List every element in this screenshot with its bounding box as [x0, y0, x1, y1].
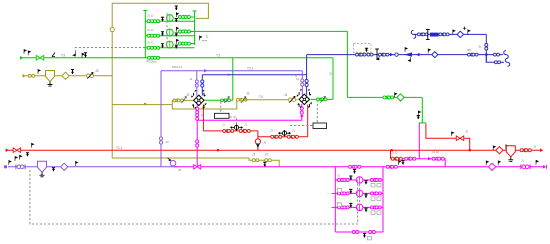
gauge vertical purple riser: [159, 137, 162, 144]
black sensors red branch valve: [452, 132, 454, 136]
gauges red row2 left: [271, 135, 278, 138]
black flow glyph on green line: [82, 53, 84, 57]
gauges blue main 3: [378, 53, 384, 56]
svg-text:11: 11: [190, 77, 193, 81]
gauges blue main mid: [355, 53, 361, 56]
arrow olive line start: [23, 74, 26, 78]
wire olive vertical into node1 arm: [171, 100, 173, 109]
wire purple T2.1 line: [161, 70, 302, 72]
wire red drop to jack row: [390, 150, 392, 159]
wire blue main line: [307, 54, 486, 56]
black actuator above gauge J1: [38, 70, 40, 74]
dashed long control bottom: [30, 170, 358, 224]
gauge vertical purple node1: [195, 80, 198, 87]
gauges red bus right: [520, 149, 527, 152]
green box right rail: [194, 11, 196, 45]
arrow magenta jack row: [428, 157, 431, 161]
tiny label box bottom: [368, 237, 372, 240]
gauges magenta bus near box: [349, 165, 356, 168]
wire magenta bus: [174, 166, 543, 168]
gauge green branch: [383, 96, 389, 99]
svg-text:11: 11: [295, 74, 298, 78]
wire olive T4 between nodes: [245, 99, 298, 101]
relief valve red stub: [255, 139, 260, 144]
black arrow right of blue diamond: [468, 30, 470, 34]
variable orifice J4 node2 olive: [288, 98, 295, 102]
slash arrow orifice green link: [225, 97, 230, 104]
valve bowtie green T3: [36, 56, 44, 61]
dashed from servo node2 left: [290, 125, 313, 127]
pump M2 magenta: [356, 190, 363, 197]
gauges magenta box bottom: [352, 231, 359, 234]
magenta pump row 2 wire: [335, 192, 383, 194]
tank blue tail upper: [504, 51, 509, 59]
arrow red bus end: [540, 148, 543, 152]
wire red jack row segment: [391, 158, 404, 160]
black arrows around magenta diamond: [486, 161, 488, 165]
tank blue tail lower: [505, 58, 510, 66]
coupler purple bus: [16, 164, 25, 169]
svg-text:J1: J1: [222, 123, 225, 127]
gauges magenta jack row: [432, 157, 439, 160]
check valves row 1 green: [189, 16, 195, 18]
servo valve filled blue: [404, 52, 412, 56]
gauge vertical blue right drop: [485, 44, 488, 51]
check valves row 3 green: [189, 43, 195, 45]
wire blue vertical node2: [306, 55, 308, 96]
check valve diamond olive: [62, 72, 69, 79]
black actuator bus right of box: [399, 161, 401, 165]
gauge pair row 1 green: [147, 20, 153, 23]
check diamond purple bus: [61, 163, 68, 170]
black actuator below red gauges: [401, 161, 404, 165]
slash arrow orifice J3: [241, 97, 246, 104]
gauge on green link node2: [317, 98, 323, 101]
wire red bus T1.1: [6, 149, 540, 151]
svg-text:IPS2bis: IPS2bis: [146, 60, 157, 64]
black arrow left of red diamond: [493, 146, 495, 150]
dashed control node1 servo: [220, 102, 222, 114]
wire green riser node1: [232, 58, 234, 101]
accumulator A1 olive: [46, 71, 55, 82]
black tall actuator blue main: [375, 49, 379, 61]
wire magenta node2 drop: [301, 104, 303, 120]
arrowhead blue line: [416, 53, 419, 57]
gauges red jack row: [391, 157, 398, 160]
svg-text:T2.1: T2.1: [247, 66, 254, 70]
svg-text:1L: 1L: [201, 113, 205, 117]
gauges blue tail upper: [493, 53, 499, 56]
wire green line1 upper: [195, 30, 348, 32]
gauges right magenta row 2: [370, 192, 376, 195]
check diamond blue upper: [457, 31, 463, 37]
dashed control node2 servo: [316, 100, 318, 123]
wire olive supply box top: [112, 3, 208, 31]
wire red row2: [258, 136, 308, 138]
relief valve purple to magenta transition: [170, 160, 176, 166]
valve bowtie red branch: [456, 136, 464, 141]
green box left rail: [144, 11, 146, 58]
filled check valve blue upper: [431, 33, 439, 36]
gauge vertical blue node1: [201, 80, 204, 87]
plus sign above blue diamond: [463, 27, 466, 30]
wire red jack branch: [426, 123, 470, 150]
pump P3 green: [166, 41, 173, 48]
gauge J1 olive: [28, 74, 35, 77]
black arrows magenta row 1: [364, 181, 367, 185]
magenta box right rail: [382, 167, 384, 232]
wire olive branch T2 left: [23, 75, 113, 77]
svg-text:J1: J1: [337, 174, 340, 178]
gauge olive before node1: [173, 99, 179, 102]
theta valve red row2: [280, 132, 289, 134]
black sensor above red bowtie: [32, 143, 34, 147]
black sensors left of green valve: [24, 50, 26, 54]
svg-text:J1 J1: J1 J1: [147, 40, 154, 44]
valve bowtie red bus left: [13, 148, 21, 153]
gauge blue main 4: [395, 53, 398, 56]
black actuator row 2 green: [161, 32, 164, 36]
check diamond red bus right: [496, 147, 503, 154]
black actuator blue main 1: [365, 48, 368, 52]
svg-text:J1: J1: [270, 129, 273, 133]
svg-text:T3: T3: [61, 54, 65, 58]
black actuator magenta row 1: [349, 176, 352, 180]
pump M1 magenta: [356, 177, 363, 184]
black sensors above coupler: [15, 157, 17, 161]
svg-text:J6: J6: [178, 168, 182, 172]
valve magenta on bus at node1 drop: [194, 165, 201, 169]
gauges red row2 right: [287, 135, 294, 138]
wire green branch to jack: [347, 96, 422, 98]
wire green drop to jack: [421, 97, 423, 123]
svg-text:3L: 3L: [479, 45, 483, 49]
arrow magenta bus end: [543, 165, 546, 169]
tank symbol blue upper: [411, 30, 416, 38]
check valves row 2 green: [189, 31, 195, 33]
svg-text:J1 J1: J1 J1: [147, 14, 154, 18]
svg-text:12: 12: [296, 77, 300, 81]
arrow green line start: [20, 56, 23, 60]
magenta box bottom wire: [335, 231, 383, 233]
black tick purple bus: [52, 168, 55, 172]
tiny label boxes magenta row 3: [371, 211, 375, 214]
jack top cap green: [419, 122, 426, 124]
svg-text:T3: T3: [216, 54, 220, 58]
black arrow right of red diamond: [506, 145, 508, 149]
theta valve red row1: [232, 127, 241, 129]
magenta box left rail: [334, 167, 336, 232]
wire blue tail lower right: [486, 55, 504, 63]
wire olive bottom line: [112, 158, 279, 167]
gauges magenta red link: [405, 157, 412, 160]
gauges magenta row 2: [337, 192, 343, 195]
gauge pair row 2 green: [147, 34, 153, 37]
black actuator below olive gauges: [263, 162, 266, 167]
wire olive arm node1: [172, 99, 193, 101]
pump source LP1 on olive vertical: [110, 27, 114, 31]
black actuator above pump1: [175, 6, 178, 10]
orifice J2 olive with arrow: [86, 74, 93, 78]
gauges blue tail lower: [494, 61, 500, 64]
junction dot red mid: [217, 149, 219, 151]
green pump row 3 wire: [145, 47, 194, 49]
check diamond blue main: [432, 52, 438, 58]
svg-text:J2: J2: [265, 153, 269, 157]
gauges red row1 left: [223, 129, 230, 132]
junction dot red drop: [469, 149, 471, 151]
pump P2 green: [166, 29, 173, 36]
gauge pair on T3 below green box: [147, 56, 153, 59]
accumulator purple bus: [38, 161, 47, 172]
gauge vertical magenta node1 a: [196, 107, 199, 114]
svg-text:J4: J4: [284, 93, 288, 97]
dashed vertical magenta box pumps: [359, 180, 361, 207]
wire red node1 drop: [202, 105, 204, 131]
svg-text:J1: J1: [533, 145, 537, 149]
wire blue node link horizontal: [202, 74, 306, 76]
pump M3 magenta: [356, 204, 363, 211]
wire purple bus T2: [8, 166, 178, 168]
purple bus start tick: [4, 165, 7, 168]
gauges blue main 2: [367, 53, 373, 56]
svg-text:J2: J2: [95, 69, 99, 73]
servo amplifier box node2: [313, 123, 327, 129]
black sensors on green drop: [418, 111, 420, 115]
label boxes left of magenta box rail: [332, 193, 336, 207]
black arrows right of pump row 3: [176, 39, 178, 43]
gauge J2 olive bottom: [265, 159, 272, 162]
wire magenta drop to bus right: [444, 159, 446, 167]
tiny label boxes magenta row 2: [371, 197, 375, 200]
green pump row 2 wire: [145, 35, 194, 37]
arrow magenta node2 drop down: [300, 115, 304, 118]
black actuator row 3 green: [161, 44, 164, 48]
wire green line T3 main: [20, 57, 333, 59]
wire purple drop node1: [196, 71, 198, 96]
black arrow blue main right: [428, 49, 430, 53]
junction node X2 four-way: [299, 94, 309, 104]
black actuator box bottom: [363, 234, 366, 238]
wire red row1: [203, 130, 258, 132]
wire red stub to bus: [257, 131, 259, 150]
slash arrow orifice node1 left: [182, 97, 187, 104]
arrow dashed control green: [73, 52, 75, 56]
wire blue drop node1: [201, 75, 203, 96]
gauge pair row 3 green: [147, 46, 153, 49]
black tick on olive diamond: [71, 70, 74, 75]
black arrow left of blue diamond: [453, 30, 455, 34]
black actuator row 1 green: [161, 17, 164, 21]
pump gauge on green link node1: [221, 99, 227, 102]
accumulator red bus right: [506, 146, 515, 157]
black arrows magenta row 3: [364, 208, 367, 212]
gauges blue upper right: [439, 33, 445, 36]
junction dot olive: [144, 103, 146, 105]
check diamond green branch: [397, 94, 404, 101]
svg-text:J2: J2: [465, 130, 469, 134]
magenta pump row 1 wire: [335, 179, 383, 181]
dashed filter box blue: [354, 44, 372, 53]
gauges magenta row 1: [337, 179, 343, 182]
svg-text:J1 J1: J1 J1: [147, 28, 154, 32]
slash arrow orifice green link node2: [321, 96, 326, 102]
gauges magenta bus right of box: [386, 165, 393, 168]
arrow red bus start: [6, 148, 9, 152]
black arrow purple bus: [76, 162, 78, 166]
dashed control to green box: [75, 48, 145, 57]
svg-text:J1: J1: [292, 129, 295, 133]
servo amplifier box node1: [215, 113, 230, 118]
black cross actuator blue upper: [426, 29, 430, 40]
junction dot red right: [391, 149, 393, 151]
svg-text:J2: J2: [166, 140, 170, 144]
svg-text:J1: J1: [244, 123, 247, 127]
wire green link node1: [203, 99, 233, 101]
svg-text:J2: J2: [186, 93, 190, 97]
svg-text:PDU2.1: PDU2.1: [172, 65, 183, 69]
black actuator magenta row 3: [349, 203, 352, 207]
dashed vertical in green box: [166, 13, 168, 48]
wire magenta jack drop: [418, 123, 420, 158]
wire magenta cross line 1L: [197, 119, 302, 121]
gauges right magenta row 3: [370, 206, 376, 209]
junction node X1 four-way: [194, 95, 204, 105]
gauge vertical magenta node2: [300, 107, 303, 114]
wire magenta jack row: [403, 158, 445, 160]
wire blue tail upper right: [486, 54, 503, 56]
wire olive branch to node1: [112, 104, 172, 106]
black arrows magenta row 2: [364, 194, 367, 198]
coupler magenta bus right: [521, 164, 530, 169]
check diamond magenta bus right: [488, 163, 495, 170]
arrow purple T2.1: [204, 69, 207, 73]
gauges magenta row 3: [337, 206, 343, 209]
wire purple riser left: [160, 71, 162, 167]
flow dot blue: [390, 53, 393, 57]
black tick sensor on green line: [52, 53, 55, 57]
svg-text:J1 J2: J1 J2: [391, 151, 398, 155]
gauges right magenta row 1: [370, 179, 376, 182]
gauge vertical magenta node1 a2: [196, 114, 199, 121]
svg-text:J3: J3: [246, 92, 250, 96]
gauge vertical blue node2: [305, 79, 308, 86]
wire purple drop node2: [301, 71, 303, 96]
wire blue right drop: [485, 34, 487, 62]
svg-text:J1: J1: [521, 159, 525, 163]
svg-text:T1.1: T1.1: [116, 146, 123, 150]
wire green link node2: [311, 98, 334, 100]
green pump row 1 wire: [145, 20, 194, 22]
black tick below red bus: [26, 153, 29, 157]
gauge vertical magenta node1 b: [196, 140, 199, 147]
gauge J3 olive: [237, 98, 243, 101]
gauges red row1 right: [239, 129, 246, 132]
junction dot blue: [485, 54, 487, 56]
gauge J1 olive bottom: [252, 159, 259, 162]
gauges blue before junction: [467, 53, 473, 56]
svg-text:J5: J5: [263, 141, 267, 145]
wire blue upper return line: [414, 33, 486, 35]
wire red node2 drop: [307, 105, 309, 137]
wire green riser node2: [332, 58, 334, 100]
wire magenta node1 drop: [196, 105, 198, 167]
black arrows right of pump row 1: [176, 13, 178, 17]
black arrows right of pump row 2: [176, 27, 178, 31]
wire olive main vertical: [111, 31, 113, 158]
magenta pump row 3 wire: [335, 206, 383, 208]
black check glyph D on green line1: [200, 36, 202, 40]
svg-text:T4: T4: [259, 95, 263, 99]
svg-text:J1: J1: [252, 153, 256, 157]
black sensors purple bus start: [9, 161, 11, 165]
black arrow on green branch: [395, 93, 397, 97]
black actuator magenta row 2: [349, 189, 352, 193]
wire green drop right: [346, 31, 348, 97]
wire olive return loop under node1: [172, 100, 237, 109]
dashed from servo node1: [230, 117, 237, 124]
black actuator below bus gauges: [353, 170, 356, 174]
tiny label boxes magenta row 1: [371, 184, 375, 187]
gauge vertical purple node2: [301, 79, 304, 86]
pump P1 green: [166, 15, 173, 22]
black arrow right coupler: [536, 160, 538, 164]
gauges blue upper left: [417, 33, 423, 36]
